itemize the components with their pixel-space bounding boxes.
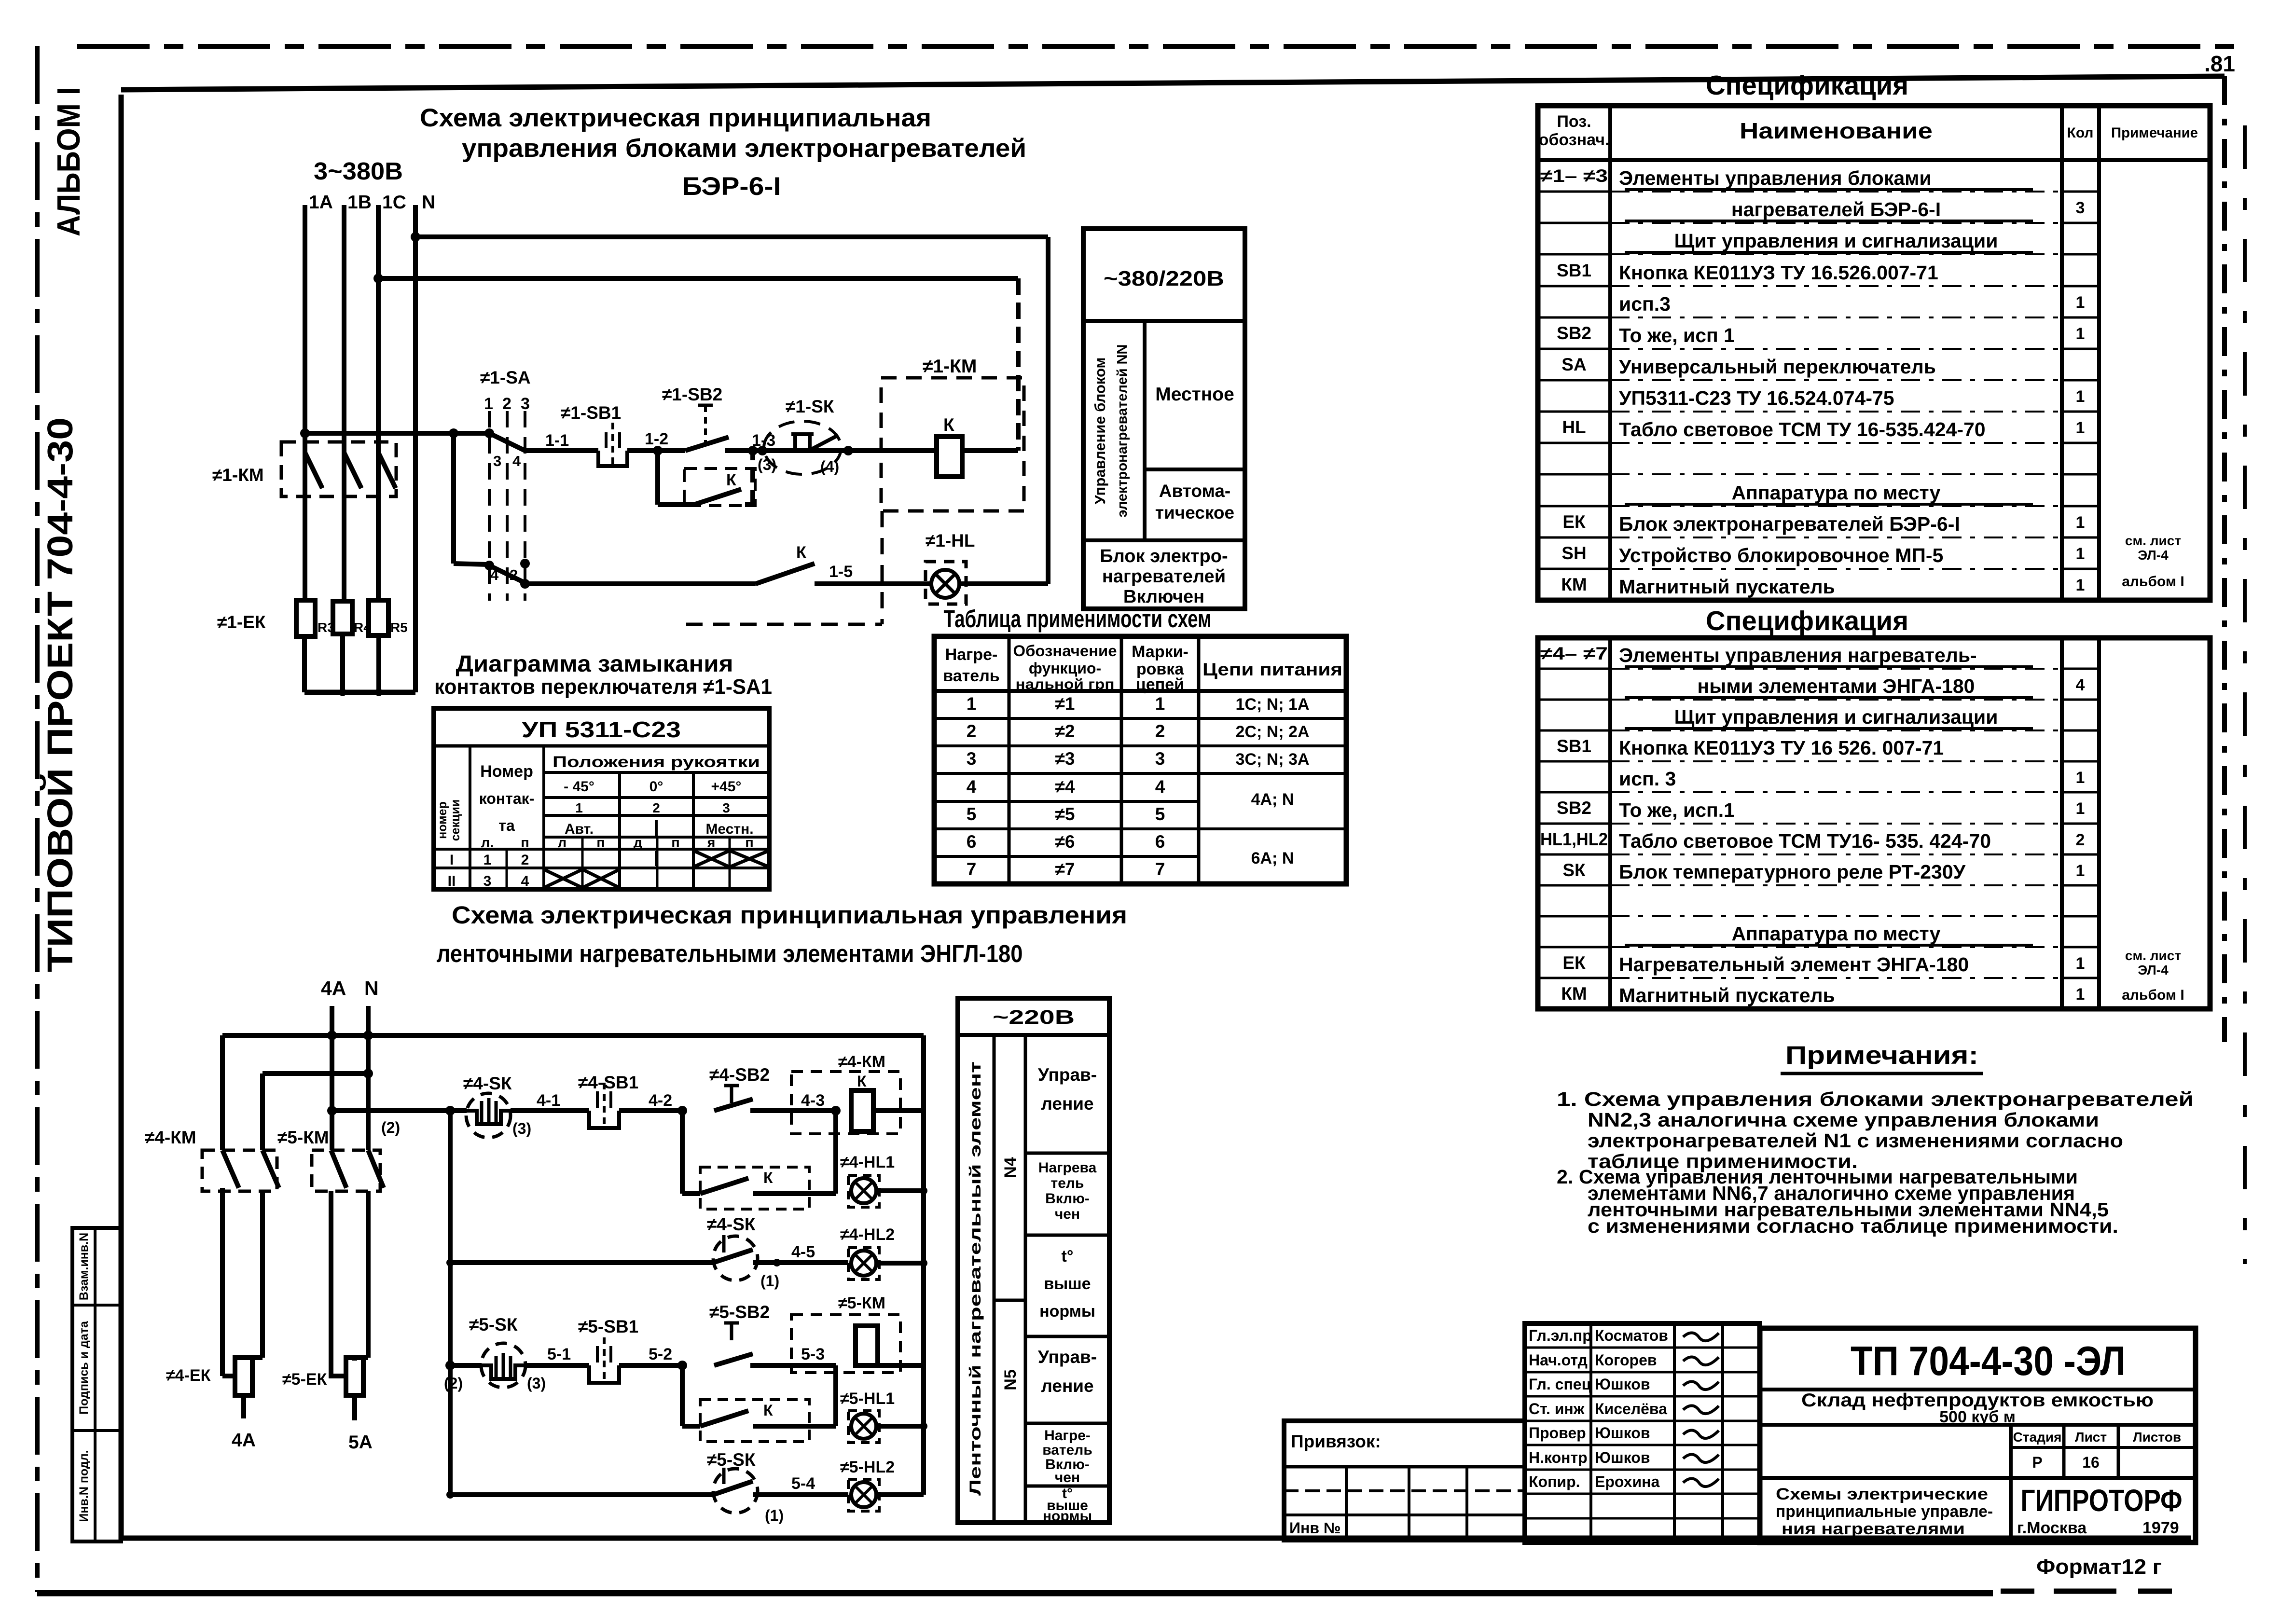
svg-text:Включен: Включен <box>1123 587 1204 607</box>
signal lamp HL1 <box>926 531 1048 604</box>
page outer border top (dash-dot) <box>77 44 2239 49</box>
svg-text:альбом I: альбом I <box>2122 987 2184 1003</box>
bus 1A <box>303 205 307 600</box>
svg-text:Авт.: Авт. <box>565 821 594 837</box>
svg-text:≠1: ≠1 <box>1055 694 1075 714</box>
specification table 2 <box>1538 606 2210 1009</box>
svg-text:Схемы электрические: Схемы электрические <box>1776 1485 1988 1503</box>
applicability table title <box>944 605 1212 633</box>
svg-text:1: 1 <box>2076 985 2085 1004</box>
svg-text:3: 3 <box>722 800 730 815</box>
svg-text:Устройство блокировочное МП: Устройство блокировочное МП-5 <box>1619 544 1943 566</box>
note 1 <box>1557 1088 2194 1172</box>
svg-text:Подпись и дата: Подпись и дата <box>77 1321 91 1415</box>
svg-text:N5: N5 <box>1001 1369 1020 1390</box>
svg-text:Таблица применимости схем: Таблица применимости схем <box>944 605 1212 633</box>
designers signature table <box>1525 1323 1760 1542</box>
svg-text:1. Схема управления блокам: 1. Схема управления блоками электронагре… <box>1557 1088 2194 1110</box>
svg-text:чен: чен <box>1055 1470 1080 1486</box>
svg-text:Блок электро-: Блок электро- <box>1100 546 1228 566</box>
sidebar label ALBOM I <box>51 87 87 236</box>
svg-text:≠5-HL2: ≠5-HL2 <box>840 1458 895 1476</box>
svg-text:≠1-ЕК: ≠1-ЕК <box>217 612 266 632</box>
svg-text:Поз.: Поз. <box>1557 112 1591 131</box>
svg-text:1: 1 <box>2076 576 2085 594</box>
svg-text:≠1-SК: ≠1-SК <box>786 397 834 416</box>
svg-text:I: I <box>450 852 454 868</box>
svg-text:п: п <box>745 835 754 851</box>
svg-text:я: я <box>707 835 716 851</box>
svg-text:Косматов: Косматов <box>1595 1327 1668 1344</box>
svg-text:≠1– ≠3: ≠1– ≠3 <box>1540 166 1608 186</box>
svg-text:Автома-: Автома- <box>1159 481 1231 501</box>
label 5-3 <box>801 1345 825 1363</box>
svg-text:альбом I: альбом I <box>2122 574 2184 590</box>
svg-text:2: 2 <box>967 721 977 741</box>
svg-text:нагревателей: нагревателей <box>1102 566 1226 587</box>
wire N feed to lamp return <box>411 232 1048 584</box>
svg-text:ление: ление <box>1041 1376 1093 1396</box>
svg-text:4: 4 <box>512 453 521 469</box>
resistor R3 <box>296 600 335 636</box>
signal lamp HL1-5 <box>840 1390 927 1443</box>
heater block EK1 label <box>217 612 266 632</box>
svg-text:п: п <box>671 835 680 851</box>
svg-text:1: 1 <box>484 852 492 868</box>
svg-text:1: 1 <box>575 800 583 815</box>
svg-text:Магнитный пускатель: Магнитный пускатель <box>1619 576 1835 598</box>
rail N to KM4 <box>263 1069 373 1150</box>
svg-text:нормы: нормы <box>1043 1508 1092 1524</box>
svg-text:л.: л. <box>481 835 494 851</box>
table 220 frame <box>958 998 1109 1523</box>
svg-text:ными элементами ЭНГА-18: ными элементами ЭНГА-180 <box>1698 675 1975 697</box>
svg-text:≠5-HL1: ≠5-HL1 <box>840 1390 895 1408</box>
label KM1 <box>212 465 264 485</box>
svg-text:5-1: 5-1 <box>547 1345 571 1363</box>
svg-text:КМ: КМ <box>1561 984 1587 1004</box>
pushbutton SB2-5 <box>709 1302 836 1365</box>
svg-text:≠4-SК: ≠4-SК <box>463 1073 512 1093</box>
svg-text:N4: N4 <box>1001 1157 1020 1178</box>
heater common wire <box>304 634 415 696</box>
pushbutton SB1-5 <box>578 1317 682 1383</box>
svg-text:управления блоками электрона: управления блоками электронагревателей <box>462 134 1026 163</box>
svg-text:та: та <box>498 817 515 834</box>
bus phase labels 1A 1B 1C N <box>309 192 435 213</box>
bus N <box>413 205 418 692</box>
svg-text:Вклю-: Вклю- <box>1045 1191 1090 1207</box>
applicability table <box>934 636 1346 884</box>
svg-text:К: К <box>763 1169 773 1186</box>
switch SA1 label and columns <box>480 368 531 601</box>
table 380/220 texts <box>1092 267 1234 607</box>
svg-text:л: л <box>558 835 567 851</box>
svg-text:Взам.инв.N: Взам.инв.N <box>77 1233 91 1300</box>
svg-text:SB1: SB1 <box>1557 261 1591 280</box>
svg-text:Примечание: Примечание <box>2111 125 2198 141</box>
svg-text:номер: номер <box>436 801 449 839</box>
svg-text:ЕК: ЕК <box>1562 512 1586 532</box>
svg-text:1: 1 <box>2076 799 2085 818</box>
svg-text:4-2: 4-2 <box>649 1091 672 1110</box>
svg-text:6А; N: 6А; N <box>1251 849 1294 867</box>
svg-text:Положения рукоятки: Положения рукоятки <box>553 753 760 771</box>
svg-text:Табло световое ТСМ ТУ 16-535: Табло световое ТСМ ТУ 16-535.424-70 <box>1619 418 1986 440</box>
svg-text:УП 5311-С23: УП 5311-С23 <box>522 717 681 742</box>
svg-text:2: 2 <box>2076 831 2085 849</box>
svg-text:Щит управления и сигнализа: Щит управления и сигнализации <box>1674 706 1998 728</box>
svg-text:Блок температурного реле РТ: Блок температурного реле РТ-230У <box>1619 861 1966 883</box>
svg-text:≠5-SК: ≠5-SК <box>707 1450 756 1470</box>
svg-text:≠5-ЕК: ≠5-ЕК <box>282 1370 327 1389</box>
svg-text:0°: 0° <box>649 779 663 795</box>
self-hold contact K bypass <box>658 446 758 506</box>
svg-text:(1): (1) <box>760 1272 779 1290</box>
svg-text:1В: 1В <box>347 192 372 213</box>
right return bus <box>921 1035 926 1495</box>
svg-text:Нагревательный элемент ЭН: Нагревательный элемент ЭНГА-180 <box>1619 953 1969 976</box>
svg-text:Кнопка КЕ011УЗ ТУ 16.: Кнопка КЕ011УЗ ТУ 16.526.007-71 <box>1619 261 1938 284</box>
svg-text:ленточными нагревательными э: ленточными нагревательными элементами ЭН… <box>437 940 1023 967</box>
title block main <box>1760 1328 2196 1542</box>
svg-text:2: 2 <box>652 800 660 815</box>
contact K on lamp circuit <box>756 543 931 584</box>
svg-text:SB2: SB2 <box>1557 323 1591 343</box>
svg-text:Нач.отд: Нач.отд <box>1529 1351 1588 1369</box>
svg-text:≠1-SА: ≠1-SА <box>480 368 531 387</box>
table 220 texts <box>967 1006 1097 1524</box>
page outer border left (dash-dot) <box>35 46 40 1592</box>
page outer border bottom (solid+dash) <box>37 1591 2191 1593</box>
svg-text:1-5: 1-5 <box>829 563 853 581</box>
left control bus <box>445 1106 455 1495</box>
svg-text:≠4-ЕК: ≠4-ЕК <box>166 1366 211 1385</box>
svg-text:(1): (1) <box>765 1507 784 1524</box>
page outer border right (dash) <box>2243 125 2247 1264</box>
svg-text:1: 1 <box>2076 325 2085 343</box>
svg-text:Формат12 г: Формат12 г <box>2036 1555 2162 1579</box>
svg-text:6: 6 <box>967 832 977 852</box>
self-hold K5 bypass <box>682 1365 836 1442</box>
svg-text:~380/220В: ~380/220В <box>1104 267 1224 290</box>
bus 1C <box>376 205 381 600</box>
svg-text:Управ-: Управ- <box>1038 1347 1097 1367</box>
svg-text:≠4-SB1: ≠4-SB1 <box>578 1073 638 1092</box>
svg-text:4: 4 <box>1155 777 1165 797</box>
svg-text:ЭЛ-4: ЭЛ-4 <box>2138 548 2169 563</box>
svg-text:2С; N; 2А: 2С; N; 2А <box>1235 723 1309 741</box>
svg-text:Диаграмма замыкания: Диаграмма замыкания <box>456 651 733 677</box>
svg-text:≠4-КМ: ≠4-КМ <box>145 1128 196 1147</box>
svg-text:1: 1 <box>2076 862 2085 880</box>
svg-text:≠1-HL: ≠1-HL <box>926 531 975 551</box>
svg-text:Юшков: Юшков <box>1595 1449 1650 1466</box>
svg-text:1: 1 <box>2076 545 2085 563</box>
svg-text:Лист: Лист <box>2075 1430 2107 1445</box>
svg-text:+45°: +45° <box>711 779 742 795</box>
svg-text:Нагре-: Нагре- <box>945 646 998 664</box>
svg-text:≠4-HL1: ≠4-HL1 <box>840 1153 895 1171</box>
svg-text:ния нагревателями: ния нагревателями <box>1782 1520 1965 1538</box>
svg-text:3С; N; 3А: 3С; N; 3А <box>1235 750 1309 769</box>
svg-text:Гл. спец: Гл. спец <box>1529 1376 1591 1393</box>
svg-text:Марки-: Марки- <box>1132 643 1188 661</box>
svg-text:.81: .81 <box>2204 51 2235 76</box>
svg-text:Листов: Листов <box>2133 1430 2181 1445</box>
svg-text:1979: 1979 <box>2142 1519 2179 1537</box>
svg-text:К: К <box>796 543 806 562</box>
svg-text:t°: t° <box>1062 1247 1074 1266</box>
svg-text:п: п <box>521 835 529 851</box>
pushbutton SB1 <box>561 403 685 466</box>
privyazok table <box>1284 1421 1525 1540</box>
svg-text:исп. 3: исп. 3 <box>1619 768 1676 790</box>
svg-text:электронагревателей NN: электронагревателей NN <box>1115 344 1130 517</box>
svg-text:КМ: КМ <box>1561 575 1587 594</box>
svg-text:Примечания:: Примечания: <box>1785 1041 1978 1070</box>
svg-text:5-4: 5-4 <box>791 1474 815 1493</box>
switch SA1 contact 4-2 <box>484 561 525 583</box>
wire 1C feed to coil return <box>373 274 1018 451</box>
svg-text:≠5: ≠5 <box>1055 804 1075 824</box>
lower row 4: SK and HL2 <box>446 1214 927 1290</box>
svg-text:Инв.N подл.: Инв.N подл. <box>77 1450 91 1522</box>
control wire rail A <box>300 428 494 438</box>
svg-text:1-1: 1-1 <box>545 431 569 450</box>
svg-text:К: К <box>763 1402 773 1419</box>
svg-text:≠1-SB2: ≠1-SB2 <box>662 385 722 404</box>
svg-text:Табло световое ТСМ ТУ16- 535: Табло световое ТСМ ТУ16- 535. 424-70 <box>1619 830 1991 852</box>
svg-text:≠1-КМ: ≠1-КМ <box>212 465 264 485</box>
svg-text:3: 3 <box>493 453 501 469</box>
svg-text:принципиальные управле-: принципиальные управле- <box>1776 1502 1993 1521</box>
svg-text:1: 1 <box>967 694 977 714</box>
svg-text:5-3: 5-3 <box>801 1345 825 1363</box>
svg-text:г.Москва: г.Москва <box>2017 1519 2087 1537</box>
svg-text:≠5-SК: ≠5-SК <box>469 1315 518 1335</box>
svg-text:500 куб м: 500 куб м <box>1939 1408 2016 1426</box>
svg-text:7: 7 <box>967 859 977 879</box>
specification table 1 <box>1538 70 2210 600</box>
contactor KM1 main contacts <box>281 442 396 496</box>
svg-text:ление: ление <box>1041 1094 1093 1114</box>
svg-text:Р: Р <box>2032 1454 2042 1471</box>
sidebar label TIPOVOY PROEKT 704-4-30 <box>40 417 80 972</box>
svg-text:R5: R5 <box>390 620 408 635</box>
svg-text:≠5-КМ: ≠5-КМ <box>838 1294 885 1312</box>
note 2 <box>1557 1166 2118 1237</box>
svg-text:секции: секции <box>449 799 462 841</box>
svg-text:Управ-: Управ- <box>1038 1065 1097 1085</box>
applicability table texts <box>943 642 1342 879</box>
svg-text:N: N <box>364 977 379 999</box>
self-hold K4 bypass <box>682 1111 836 1209</box>
svg-text:6: 6 <box>1155 832 1165 852</box>
svg-text:SН: SН <box>1561 543 1586 563</box>
sheet number 81 <box>2204 51 2235 76</box>
svg-text:3: 3 <box>1155 749 1165 769</box>
svg-text:4: 4 <box>2076 676 2085 694</box>
svg-text:ватель: ватель <box>943 667 999 685</box>
thermal contact SK4 <box>463 1073 589 1138</box>
svg-text:ГИПРОТОРФ: ГИПРОТОРФ <box>2021 1483 2183 1518</box>
schematic 2 title <box>437 901 1128 967</box>
svg-text:Стадия: Стадия <box>2013 1430 2062 1445</box>
svg-text:~220В: ~220В <box>993 1006 1075 1028</box>
wire lower rail <box>520 559 756 589</box>
svg-text:4: 4 <box>490 566 499 583</box>
svg-text:электронагревателей N1 с из: электронагревателей N1 с изменениями сог… <box>1588 1129 2123 1152</box>
svg-text:7: 7 <box>1155 859 1165 879</box>
panel boundary dashes <box>686 511 882 624</box>
svg-text:Ерохина: Ерохина <box>1595 1473 1659 1490</box>
svg-text:≠5-КМ: ≠5-КМ <box>277 1128 329 1147</box>
svg-text:исп.3: исп.3 <box>1619 293 1671 315</box>
svg-text:ЕК: ЕК <box>1562 953 1586 973</box>
wire branch to SA lower <box>454 433 487 564</box>
svg-text:п: п <box>596 835 605 851</box>
label 4-3 <box>801 1091 841 1115</box>
svg-text:(2): (2) <box>381 1119 400 1136</box>
contactor KM5 contacts <box>277 1128 384 1191</box>
svg-text:≠7: ≠7 <box>1055 859 1075 879</box>
svg-text:2: 2 <box>502 395 511 413</box>
svg-text:с изменениями согласно таб: с изменениями согласно таблице применимо… <box>1588 1215 2118 1237</box>
svg-text:≠4: ≠4 <box>1055 777 1075 797</box>
svg-text:Копир.: Копир. <box>1529 1473 1580 1490</box>
svg-text:То же, исп.1: То же, исп.1 <box>1619 799 1735 821</box>
svg-text:Спецификация: Спецификация <box>1706 606 1908 636</box>
svg-text:(4): (4) <box>820 458 839 475</box>
heater EK4 <box>166 1358 256 1451</box>
svg-text:≠1-КМ: ≠1-КМ <box>923 356 977 377</box>
svg-text:Цепи питания: Цепи питания <box>1202 660 1342 679</box>
svg-text:N: N <box>422 192 435 213</box>
svg-text:Блок электронагревателей Б: Блок электронагревателей БЭР-6-I <box>1619 513 1960 535</box>
svg-text:Элементы управления нагреват: Элементы управления нагреватель- <box>1619 644 1977 666</box>
svg-text:1: 1 <box>2076 954 2085 973</box>
svg-text:2: 2 <box>1155 721 1165 741</box>
svg-text:Юшков: Юшков <box>1595 1376 1650 1393</box>
notes title <box>1781 1041 1983 1073</box>
svg-text:ТИПОВОЙ ПРОЕКТ 704-4-30: ТИПОВОЙ ПРОЕКТ 704-4-30 <box>40 417 80 972</box>
table 380/220 frame <box>1083 229 1245 609</box>
svg-text:Провер: Провер <box>1529 1424 1586 1442</box>
svg-text:≠4-КМ: ≠4-КМ <box>838 1053 885 1071</box>
svg-text:Наименование: Наименование <box>1740 118 1933 143</box>
label 4-1 <box>537 1091 560 1110</box>
svg-text:(3): (3) <box>758 456 776 473</box>
bus 4A <box>331 1006 346 1376</box>
contactor coil KM1 <box>881 356 1024 511</box>
svg-text:≠4-HL2: ≠4-HL2 <box>840 1225 895 1244</box>
svg-text:5А: 5А <box>348 1432 373 1453</box>
svg-text:контактов переключателя ≠1-S: контактов переключателя ≠1-SА1 <box>434 675 772 699</box>
svg-text:нормы: нормы <box>1039 1302 1095 1321</box>
supply label 3~380V <box>314 157 403 185</box>
svg-text:см. лист: см. лист <box>2125 533 2181 548</box>
svg-text:1: 1 <box>2076 293 2085 312</box>
svg-text:К: К <box>857 1073 867 1090</box>
svg-text:Схема электрическая принципи: Схема электрическая принципиальная <box>420 104 931 132</box>
svg-text:Инв №: Инв № <box>1289 1519 1341 1537</box>
svg-text:цепей: цепей <box>1136 675 1184 694</box>
svg-text:3: 3 <box>2076 199 2085 217</box>
svg-text:(3): (3) <box>527 1375 546 1392</box>
svg-text:≠5-SB1: ≠5-SB1 <box>578 1317 638 1336</box>
svg-text:Управление блоком: Управление блоком <box>1092 358 1108 505</box>
svg-text:Аппаратура по месту: Аппаратура по месту <box>1732 922 1941 945</box>
control rail 5 feed <box>444 1361 482 1392</box>
svg-text:д: д <box>634 835 642 851</box>
pushbutton SB2-4 <box>709 1065 836 1111</box>
svg-text:2: 2 <box>521 852 529 868</box>
svg-text:Гл.эл.пр: Гл.эл.пр <box>1529 1327 1592 1344</box>
thermal contact SK5 <box>469 1315 589 1392</box>
svg-text:≠4-SB2: ≠4-SB2 <box>709 1065 770 1085</box>
svg-text:4А; N: 4А; N <box>1251 790 1294 809</box>
bus 1B <box>342 205 346 601</box>
control rail 4 feed <box>327 1106 467 1136</box>
svg-text:1: 1 <box>1155 694 1165 714</box>
svg-text:4А: 4А <box>321 977 346 999</box>
svg-text:Ст. инж: Ст. инж <box>1529 1400 1585 1418</box>
svg-text:К: К <box>943 415 954 435</box>
svg-text:2: 2 <box>510 566 518 583</box>
svg-text:Схема электрическая принципи: Схема электрическая принципиальная управ… <box>452 901 1127 929</box>
svg-text:1: 1 <box>2076 419 2085 437</box>
svg-text:Юшков: Юшков <box>1595 1424 1650 1442</box>
svg-text:Номер: Номер <box>480 762 533 781</box>
svg-text:Элементы управления блоками: Элементы управления блоками <box>1619 167 1932 189</box>
signal lamp HL1-4 <box>840 1153 927 1207</box>
svg-text:контак-: контак- <box>479 790 535 807</box>
pushbutton SB1-4 <box>578 1073 682 1128</box>
label 5-1 <box>547 1345 571 1363</box>
svg-text:1: 1 <box>2076 769 2085 787</box>
svg-text:≠4– ≠7: ≠4– ≠7 <box>1540 644 1608 663</box>
svg-text:≠3: ≠3 <box>1055 749 1075 769</box>
svg-text:≠4-SК: ≠4-SК <box>707 1214 756 1234</box>
svg-text:выше: выше <box>1044 1275 1091 1293</box>
svg-text:3: 3 <box>967 749 977 769</box>
svg-text:Ленточный нагревательный эле: Ленточный нагревательный элемент <box>967 1061 984 1496</box>
resistor R4 <box>333 601 371 635</box>
svg-text:≠5-SB2: ≠5-SB2 <box>709 1302 770 1322</box>
svg-text:Привязок:: Привязок: <box>1291 1431 1381 1451</box>
svg-text:Когорев: Когорев <box>1595 1351 1657 1369</box>
top rail to right bus <box>222 1031 924 1150</box>
svg-text:нальной грп: нальной грп <box>1016 676 1115 692</box>
svg-text:АЛЬБОМ I: АЛЬБОМ I <box>51 87 87 236</box>
svg-text:SB2: SB2 <box>1557 798 1591 818</box>
svg-text:II: II <box>448 873 456 889</box>
svg-text:16: 16 <box>2082 1454 2100 1471</box>
format note <box>2036 1555 2162 1579</box>
pushbutton SB2 <box>662 385 762 451</box>
svg-text:4: 4 <box>967 777 977 797</box>
svg-text:Киселёва: Киселёва <box>1595 1400 1667 1418</box>
svg-text:3~380В: 3~380В <box>314 157 403 185</box>
svg-text:функцио-: функцио- <box>1029 660 1101 677</box>
svg-text:Кнопка КЕ011УЗ ТУ 16 526. 0: Кнопка КЕ011УЗ ТУ 16 526. 007-71 <box>1619 737 1944 759</box>
svg-text:≠6: ≠6 <box>1055 832 1075 852</box>
svg-text:Магнитный пускатель: Магнитный пускатель <box>1619 984 1835 1006</box>
schematic 1 title <box>420 104 1026 201</box>
svg-text:SB1: SB1 <box>1557 736 1591 756</box>
svg-text:Аппаратура по месту: Аппаратура по месту <box>1732 482 1941 504</box>
